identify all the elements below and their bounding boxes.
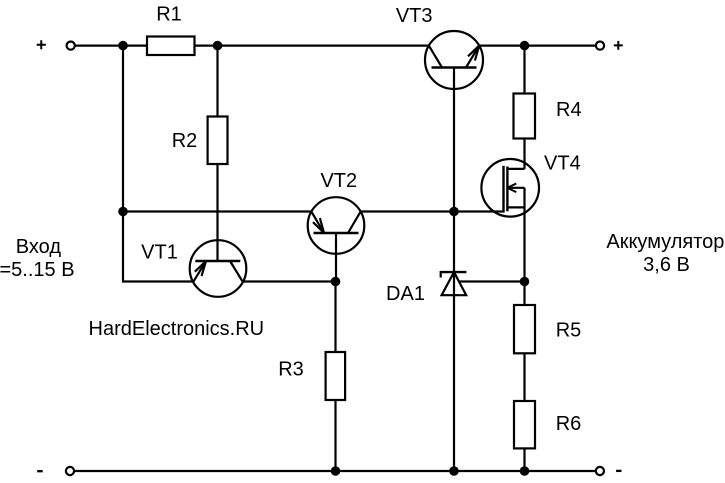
wire R4 top lead [523,46,525,94]
wire VT3 base lead down [453,68,455,212]
wire DA1 through lead [453,212,455,472]
wire R3 bottom lead [334,400,336,471]
svg-text:R4: R4 [556,99,582,121]
svg-text:VT2: VT2 [320,170,357,192]
wire DA1 reference to R5 node [458,280,525,282]
transistor VT2 [308,197,365,254]
node: VT1 collector / VT2 base / R3 junction [331,277,341,287]
label input minus sign [37,470,43,472]
terminal output minus [596,467,604,475]
svg-text:3,6 В: 3,6 В [643,254,690,276]
terminal output plus [596,42,604,50]
transistor VT3 [425,31,483,89]
node: left branch / middle rail junction [118,207,128,217]
wire R3 top lead [334,282,336,353]
resistor R3 [326,352,346,400]
wire top rail right segment [479,44,595,46]
svg-text:DA1: DA1 [386,283,425,305]
label input plus sign [37,40,46,49]
node: DA1 / bottom rail junction [449,466,459,476]
svg-text:VT3: VT3 [396,5,433,27]
terminal input minus [66,467,74,475]
svg-text:R3: R3 [278,359,304,381]
node: R6 / bottom rail junction [520,466,530,476]
wire bottom rail [75,470,596,472]
resistor R2 [208,117,228,165]
svg-text:VT4: VT4 [544,153,581,175]
wire middle rail left (to VT2 emitter) [123,210,312,212]
svg-text:HardElectronics.RU: HardElectronics.RU [89,318,265,340]
node: VT3 emitter / R4 junction [520,41,530,51]
svg-text:VT1: VT1 [141,241,178,263]
transistor VT4 (MOSFET) [481,159,539,217]
node: R3 / bottom rail junction [331,466,341,476]
node: VT4 source / DA1 ref / R5 junction [520,277,530,287]
node: middle rail / VT3 base / DA1 junction [449,207,459,217]
resistor R1 [147,37,195,56]
label output plus sign [614,41,623,50]
svg-text:Вход: Вход [16,236,62,258]
svg-text:R1: R1 [156,4,182,26]
node: R1 right / R2 top junction [213,41,223,51]
wire VT1 collector to R3 node [243,280,336,282]
wire R6 bottom lead [523,448,525,471]
resistor R6 [514,401,535,448]
wire left vertical branch to VT1 emitter [123,46,194,282]
wire top rail left segment [75,44,147,46]
svg-text:R2: R2 [172,130,198,152]
wire VT4 source down to R5 node [523,188,525,305]
wire top rail middle segment [195,44,429,46]
wire R2 bottom lead to VT1 base [216,164,218,260]
wire middle rail right (VT2 collector to VT4 gate) [361,210,505,212]
wire R4 bottom lead to VT4 drain [523,139,525,169]
svg-text:R5: R5 [556,319,582,341]
transistor VT1 [190,240,247,297]
node: top rail / left branch junction [118,41,128,51]
label output minus sign [616,470,621,472]
svg-text:Аккумулятор: Аккумулятор [606,231,724,253]
wire R5-R6 link [523,353,525,401]
zener DA1 [441,271,467,295]
terminal input plus [67,42,75,50]
resistor R4 [514,94,536,139]
wire R2 top lead [216,46,218,117]
resistor R5 [514,305,535,353]
wire VT2 base lead down [335,233,337,282]
svg-text:=5..15 В: =5..15 В [0,259,75,281]
svg-text:R6: R6 [556,413,582,435]
